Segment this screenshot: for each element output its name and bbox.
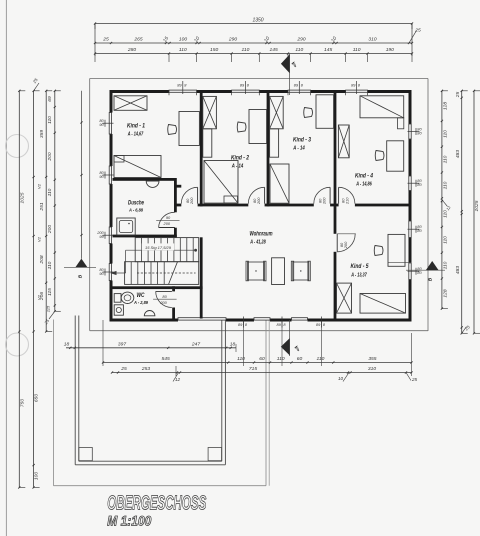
svg-text:290: 290: [296, 36, 305, 42]
svg-text:110: 110: [442, 155, 448, 163]
svg-text:145: 145: [324, 47, 332, 53]
svg-text:251: 251: [39, 202, 45, 211]
svg-text:110: 110: [442, 261, 448, 269]
svg-text:69: 69: [47, 96, 53, 102]
svg-text:200: 200: [322, 197, 327, 205]
svg-text:210: 210: [344, 197, 349, 205]
svg-text:25: 25: [414, 28, 421, 34]
svg-text:397: 397: [118, 341, 126, 347]
svg-text:115: 115: [46, 305, 51, 312]
svg-text:B: B: [78, 274, 84, 278]
svg-text:Wohnraum: Wohnraum: [250, 231, 273, 238]
svg-text:545: 545: [162, 356, 170, 362]
svg-text:128: 128: [442, 102, 448, 110]
svg-text:60: 60: [259, 356, 265, 362]
svg-text:115: 115: [47, 288, 53, 296]
svg-text:Kind - 1: Kind - 1: [127, 123, 145, 130]
svg-text:A - 2,89: A - 2,89: [133, 300, 148, 306]
svg-text:128: 128: [442, 289, 448, 297]
svg-text:280: 280: [127, 47, 136, 53]
svg-text:A - 6,88: A - 6,88: [128, 208, 143, 214]
svg-text:Kind - 3: Kind - 3: [293, 137, 311, 144]
svg-text:12: 12: [175, 377, 181, 382]
svg-text:150: 150: [210, 47, 218, 53]
svg-text:100: 100: [34, 472, 40, 480]
svg-text:265: 265: [133, 36, 142, 42]
svg-text:200: 200: [47, 152, 53, 161]
svg-text:190: 190: [386, 47, 394, 53]
svg-text:Kind - 4: Kind - 4: [355, 173, 373, 180]
svg-text:25: 25: [411, 377, 418, 382]
svg-text:200: 200: [159, 300, 167, 305]
svg-text:247: 247: [191, 341, 200, 347]
svg-text:750: 750: [20, 399, 26, 407]
svg-text:110: 110: [47, 116, 53, 124]
svg-text:208: 208: [39, 255, 45, 264]
svg-text:200: 200: [47, 225, 53, 234]
svg-text:110: 110: [47, 261, 53, 269]
svg-text:1025: 1025: [474, 200, 480, 211]
svg-text:310: 310: [368, 36, 376, 42]
svg-text:Dusche: Dusche: [128, 200, 144, 207]
svg-text:110: 110: [242, 47, 250, 53]
svg-text:359: 359: [39, 130, 45, 138]
svg-text:483: 483: [455, 266, 461, 274]
svg-text:200: 200: [189, 197, 194, 205]
svg-text:V2: V2: [37, 183, 42, 189]
svg-text:25: 25: [102, 36, 109, 42]
svg-text:1025: 1025: [20, 192, 26, 203]
svg-text:290: 290: [228, 36, 237, 42]
svg-text:110: 110: [442, 181, 448, 189]
svg-text:25: 25: [120, 366, 127, 372]
svg-text:A - 14,86: A - 14,86: [355, 182, 371, 188]
svg-text:110: 110: [317, 356, 325, 362]
svg-text:A - 13,37: A - 13,37: [350, 273, 366, 279]
svg-text:110: 110: [277, 356, 285, 362]
svg-text:310: 310: [368, 366, 376, 372]
svg-text:60: 60: [297, 356, 303, 362]
svg-text:200: 200: [163, 221, 171, 226]
svg-text:110: 110: [295, 47, 303, 53]
svg-text:100: 100: [179, 36, 187, 42]
svg-text:1350: 1350: [252, 18, 263, 24]
svg-text:110: 110: [442, 130, 448, 138]
svg-text:A - 14: A - 14: [292, 146, 305, 152]
svg-text:483: 483: [455, 150, 461, 158]
svg-text:WC: WC: [137, 293, 146, 299]
svg-text:A - 14: A - 14: [231, 164, 244, 170]
svg-text:110: 110: [353, 47, 361, 53]
svg-text:110: 110: [179, 47, 187, 53]
svg-text:200: 200: [256, 197, 261, 205]
svg-text:V2: V2: [37, 236, 42, 242]
svg-text:650: 650: [34, 394, 40, 402]
svg-text:18: 18: [64, 341, 70, 347]
svg-text:18: 18: [230, 341, 236, 347]
svg-text:Kind - 5: Kind - 5: [351, 263, 369, 270]
svg-text:M 1:100: M 1:100: [107, 513, 151, 529]
svg-text:10: 10: [338, 376, 344, 381]
svg-text:715: 715: [249, 366, 257, 372]
svg-text:110: 110: [237, 356, 245, 362]
svg-text:253: 253: [141, 366, 150, 372]
svg-text:A - 41,28: A - 41,28: [249, 240, 265, 246]
svg-text:200: 200: [343, 241, 348, 249]
svg-text:25: 25: [455, 92, 461, 99]
svg-text:15 Stg 17,5/29: 15 Stg 17,5/29: [145, 245, 172, 250]
svg-text:B: B: [428, 277, 434, 281]
svg-text:Kind - 2: Kind - 2: [231, 155, 249, 162]
svg-text:OBERGESCHOSS: OBERGESCHOSS: [107, 493, 206, 515]
svg-text:145: 145: [270, 47, 278, 53]
svg-text:110: 110: [47, 188, 53, 196]
svg-text:110: 110: [442, 236, 448, 244]
svg-text:206: 206: [39, 292, 45, 301]
svg-text:A - 14,67: A - 14,67: [127, 132, 143, 138]
svg-text:355: 355: [368, 356, 376, 362]
